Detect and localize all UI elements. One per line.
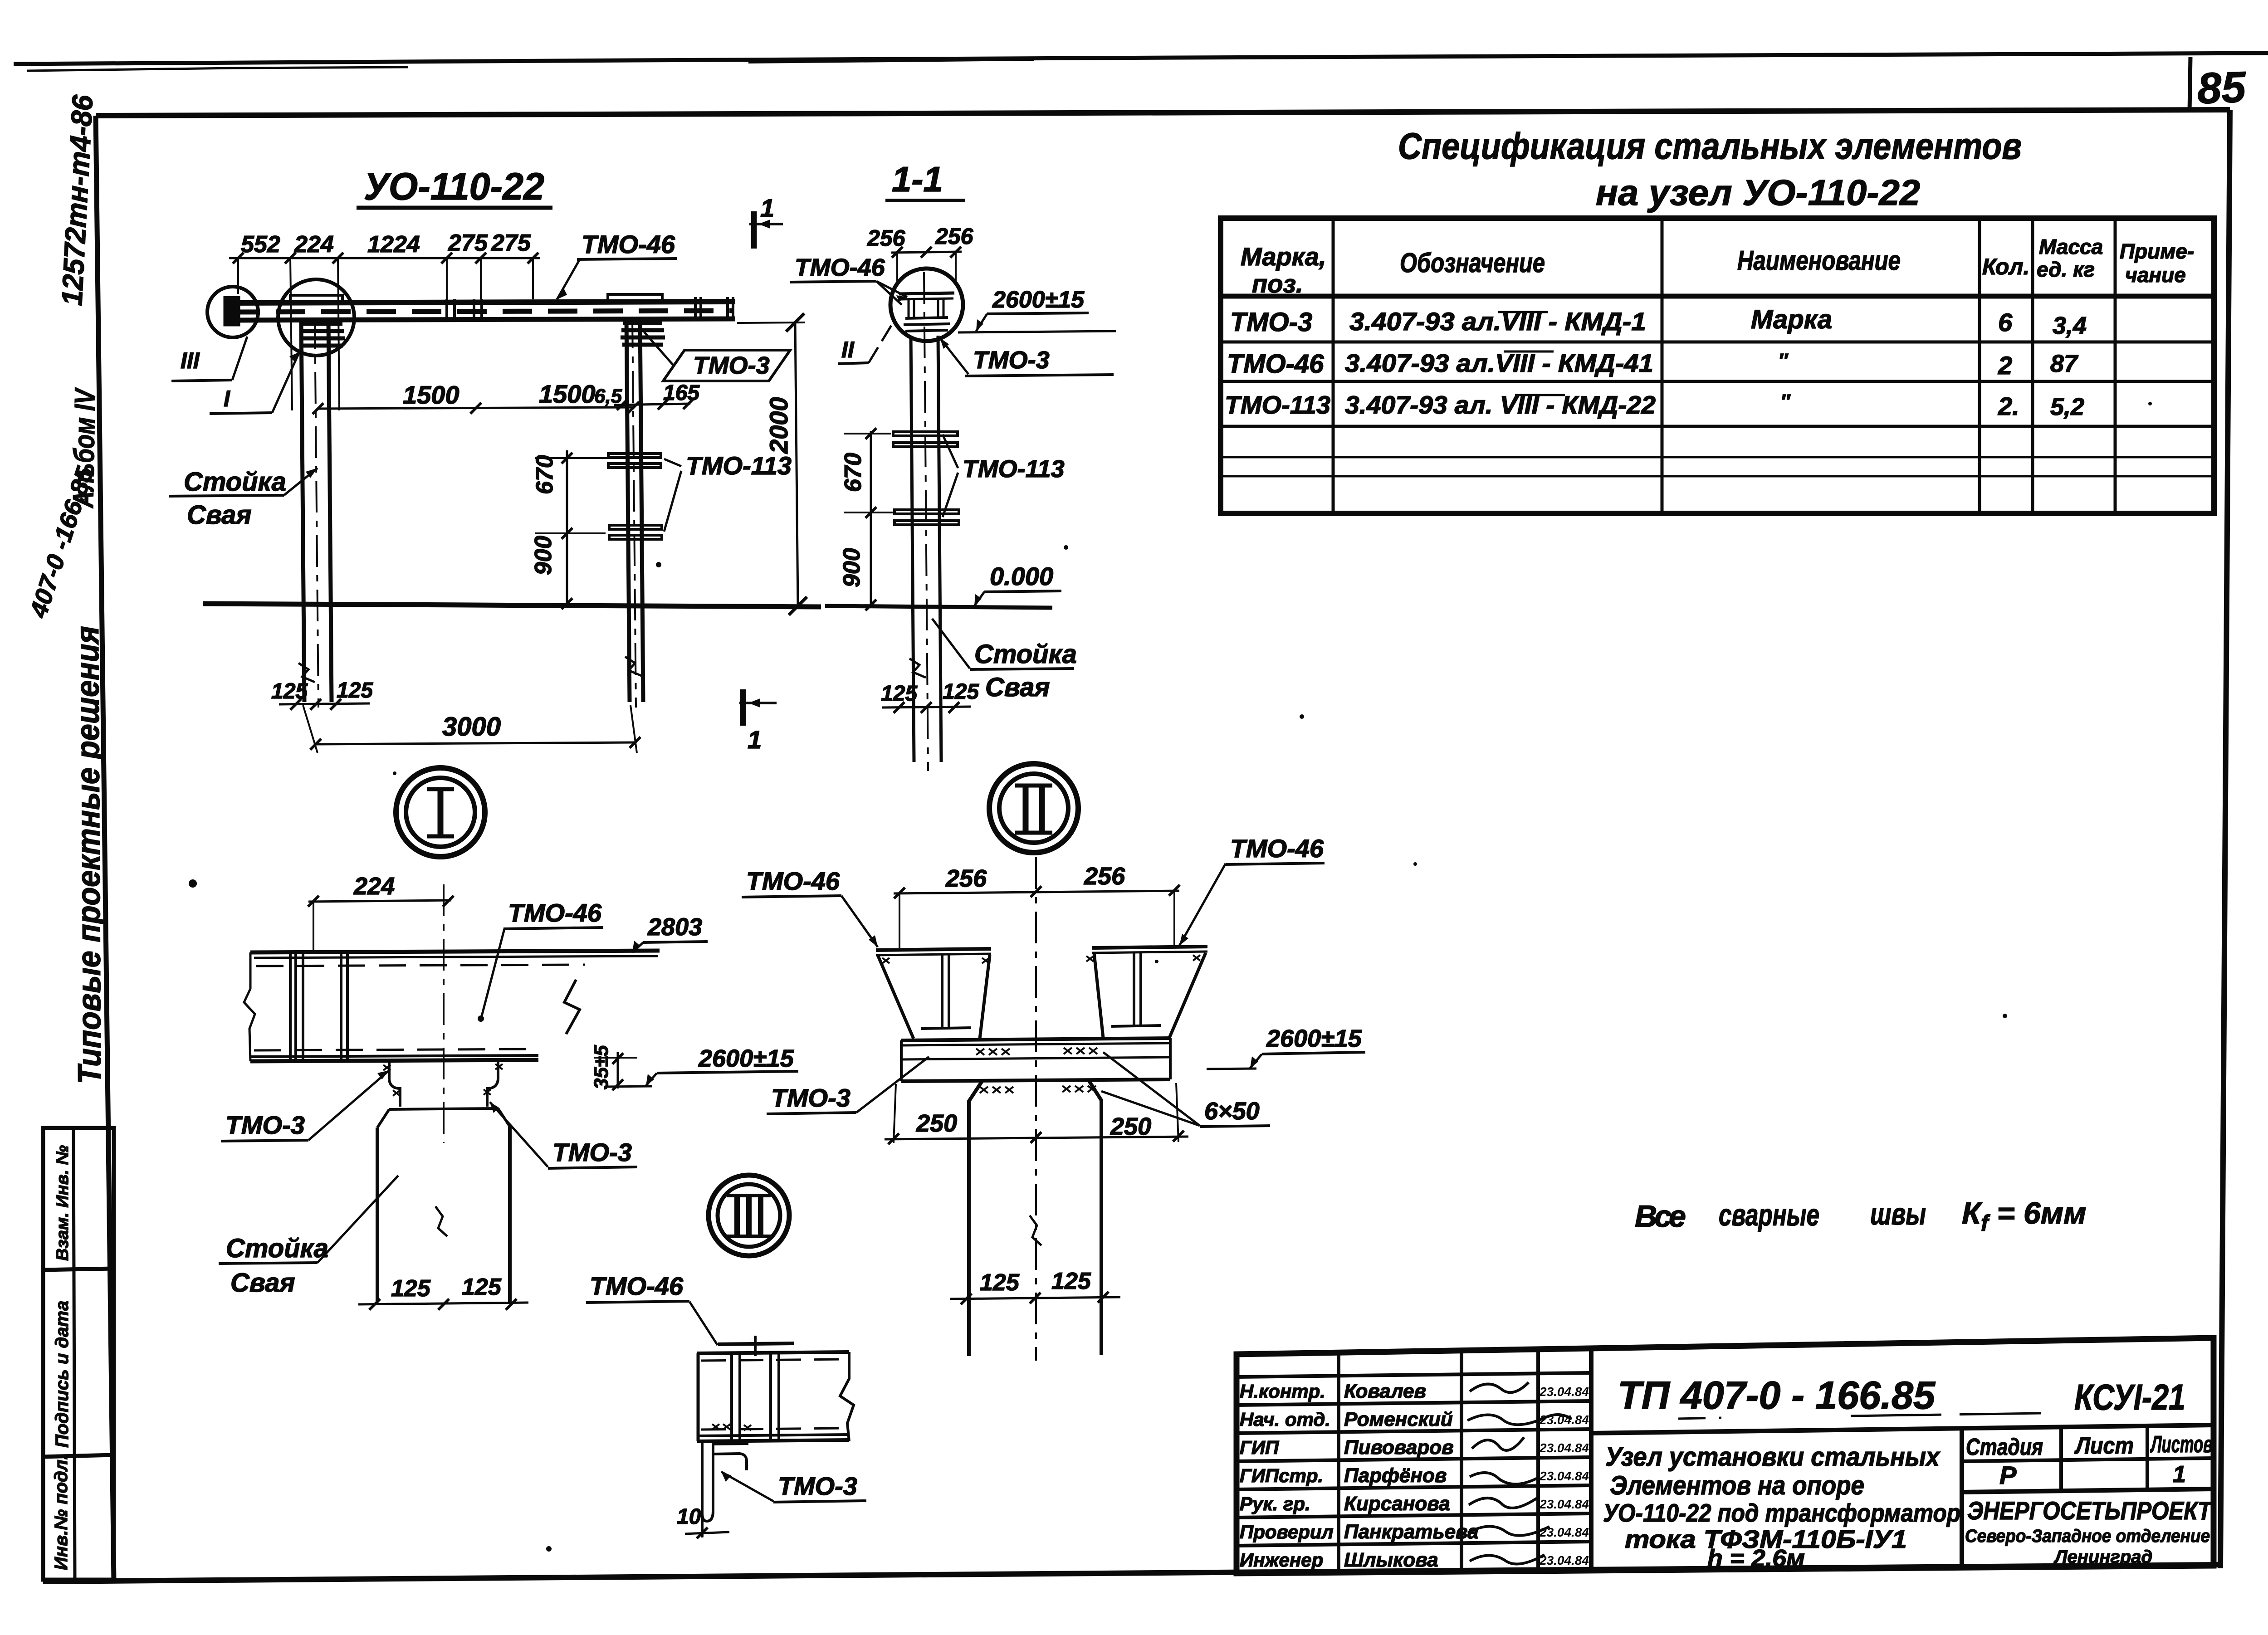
svg-text:670: 670 — [532, 455, 558, 494]
svg-text:125: 125 — [337, 678, 373, 703]
page top edge second scratch line — [27, 67, 408, 71]
weld marks upper row — [976, 1049, 1010, 1055]
frame bottom line — [43, 1565, 2220, 1581]
svg-text:ТМО-3: ТМО-3 — [552, 1138, 632, 1166]
frame left line — [96, 116, 114, 1581]
ТМО-3 band — [900, 1040, 903, 1081]
svg-text:Стойка: Стойка — [974, 639, 1077, 669]
signature rows roles — [1240, 1381, 1334, 1571]
signature dates 23.04.84 — [1539, 1385, 1589, 1567]
dim 65/165 near right column top — [614, 404, 690, 405]
svg-text:″: ″ — [1778, 350, 1789, 372]
svg-text:1: 1 — [760, 194, 774, 222]
svg-text:Стойка: Стойка — [184, 467, 286, 497]
svg-text:275: 275 — [491, 230, 531, 256]
section 1-1 view — [790, 159, 1116, 771]
weld x marks — [712, 1424, 730, 1430]
gusset slant sides — [878, 955, 914, 1039]
svg-text:УО-110-22 под трансформатор: УО-110-22 под трансформатор — [1603, 1498, 1960, 1527]
scan speckles — [189, 402, 2152, 1552]
right break — [840, 1352, 854, 1441]
beam band bottom lines — [254, 1049, 540, 1050]
svg-text:Наименование: Наименование — [1737, 245, 1901, 276]
svg-text:10: 10 — [677, 1505, 701, 1529]
dim 670/900 vertical — [870, 431, 872, 607]
svg-text:КСУI-21: КСУI-21 — [2074, 1377, 2185, 1417]
svg-text:2.: 2. — [1998, 392, 2019, 420]
centerline — [443, 884, 445, 1143]
top dim extension lines — [237, 258, 239, 294]
svg-text:Альбом IV: Альбом IV — [67, 387, 102, 509]
svg-text:Кирсанова: Кирсанова — [1344, 1493, 1450, 1515]
svg-text:1: 1 — [748, 725, 762, 754]
svg-text:3.407-93 ал. VIII - КМД-22: 3.407-93 ал. VIII - КМД-22 — [1345, 390, 1656, 419]
overline VIII row1 — [1498, 312, 1565, 395]
svg-text:Проверил: Проверил — [1240, 1521, 1334, 1542]
svg-text:Типовые проектные решения: Типовые проектные решения — [69, 626, 108, 1084]
svg-text:224: 224 — [294, 231, 334, 258]
ground line — [825, 606, 1052, 608]
svg-text:Масса: Масса — [2039, 235, 2103, 259]
weld marks at flange tips — [882, 955, 1200, 963]
svg-text:ед. кг: ед. кг — [2037, 258, 2095, 281]
svg-text:23.04.84: 23.04.84 — [1539, 1413, 1589, 1427]
frame right line — [2220, 110, 2230, 1568]
dim 35±5 — [594, 1052, 637, 1090]
svg-text:670: 670 — [840, 453, 866, 492]
svg-text:сварные: сварные — [1719, 1198, 1819, 1232]
svg-text:ТМО-46: ТМО-46 — [508, 898, 602, 927]
dim 1500 1500 line — [318, 407, 634, 409]
svg-text:Приме-: Приме- — [2120, 239, 2194, 263]
svg-text:256: 256 — [1084, 863, 1125, 890]
svg-text:ТМО-46: ТМО-46 — [1227, 349, 1324, 379]
svg-text:552: 552 — [241, 231, 280, 258]
svg-text:Нач. отд.: Нач. отд. — [1240, 1409, 1330, 1430]
section mark 1 bottom — [739, 689, 777, 726]
svg-text:Все: Все — [1635, 1199, 1686, 1234]
svg-text:125: 125 — [462, 1274, 502, 1300]
svg-text:275: 275 — [448, 230, 488, 256]
bracket flanges and webs — [876, 857, 1207, 1361]
svg-text:ТМО-3: ТМО-3 — [1230, 307, 1312, 337]
svg-text:23.04.84: 23.04.84 — [1539, 1441, 1589, 1455]
traverse beam ТМО-46 top chord — [229, 302, 735, 303]
column walls — [911, 336, 914, 762]
band bottom — [701, 1428, 844, 1430]
top dimension line — [229, 257, 540, 259]
elevation view УО-110-22 — [169, 165, 821, 754]
dim 256 256 line — [891, 252, 962, 253]
svg-text:256: 256 — [935, 224, 974, 249]
socket bell below band — [388, 1062, 391, 1079]
svg-text:250: 250 — [916, 1110, 957, 1137]
dim 2000 vertical — [795, 322, 798, 606]
svg-text:Инженер: Инженер — [1240, 1549, 1323, 1571]
column centerline — [924, 272, 928, 771]
bottom dim 125 125 — [882, 707, 971, 708]
svg-text:на узел УО-110-22: на узел УО-110-22 — [1596, 172, 1920, 213]
svg-text:224: 224 — [353, 873, 395, 900]
svg-text:ТМО-46: ТМО-46 — [1230, 834, 1324, 863]
svg-text:ТМО-113: ТМО-113 — [963, 455, 1065, 483]
svg-text:12572тн-т4-86: 12572тн-т4-86 — [55, 94, 99, 307]
beam mid stiffeners — [445, 299, 448, 321]
svg-text:Ковалев: Ковалев — [1344, 1380, 1426, 1402]
beam right end plates — [694, 297, 697, 320]
svg-text:Инв.№ подл.: Инв.№ подл. — [51, 1454, 71, 1570]
svg-text:1: 1 — [2173, 1461, 2186, 1488]
stiffener pair — [340, 952, 342, 1060]
svg-text:85: 85 — [2196, 63, 2247, 113]
svg-text:Элементов на опоре: Элементов на опоре — [1610, 1471, 1864, 1500]
svg-text:Спецификация стальных элементо: Спецификация стальных элементов — [1398, 126, 2022, 167]
svg-text:Взам. Инв. №: Взам. Инв. № — [53, 1145, 72, 1261]
dim 3000 line — [316, 742, 635, 744]
svg-text:Ленинград: Ленинград — [2053, 1547, 2152, 1567]
pile break — [1030, 1215, 1041, 1245]
svg-text:ТМО-46: ТМО-46 — [795, 254, 885, 281]
left web — [941, 955, 943, 1029]
svg-text:Пивоваров: Пивоваров — [1344, 1436, 1454, 1459]
top dim ticks — [233, 253, 244, 264]
dim 224 — [308, 896, 454, 950]
detail I — [219, 768, 798, 1310]
beam flange cross lines in circle — [899, 293, 954, 294]
svg-text:ТМО-113: ТМО-113 — [686, 451, 792, 480]
svg-text:чание: чание — [2125, 263, 2186, 287]
svg-text:ЭНЕРГОСЕТЬПРОЕКТ: ЭНЕРГОСЕТЬПРОЕКТ — [1967, 1496, 2213, 1525]
sheet number box divider — [2190, 57, 2190, 112]
right column break mark — [625, 657, 641, 676]
column flange joint upper — [893, 432, 958, 436]
detail II circle — [989, 764, 1078, 853]
svg-text:Панкратьева: Панкратьева — [1344, 1521, 1479, 1543]
dim 670/900 vertical line right column — [566, 450, 568, 605]
end plate verticals — [289, 952, 292, 1060]
svg-text:2600±15: 2600±15 — [698, 1045, 794, 1072]
svg-text:23.04.84: 23.04.84 — [1539, 1553, 1589, 1567]
svg-text:Узел установки стальных: Узел установки стальных — [1605, 1442, 1941, 1472]
title block outer box — [1237, 1338, 2214, 1573]
svg-text:Лист: Лист — [2074, 1433, 2134, 1459]
pile with chamfer — [969, 1081, 982, 1356]
svg-text:125: 125 — [391, 1275, 431, 1302]
beam left end plate — [225, 298, 239, 325]
svg-text:h = 2,6м: h = 2,6м — [1707, 1545, 1805, 1572]
svg-text:III: III — [181, 348, 200, 373]
svg-text:Листов: Листов — [2150, 1431, 2213, 1458]
small webs — [908, 299, 910, 317]
svg-text:I: I — [224, 386, 230, 411]
svg-text:23.04.84: 23.04.84 — [1539, 1525, 1589, 1539]
svg-text:Марка,: Марка, — [1241, 242, 1326, 271]
svg-text:Н.контр.: Н.контр. — [1240, 1381, 1325, 1402]
section circle around column top — [825, 268, 1052, 771]
top plate — [718, 1343, 794, 1344]
svg-text:1224: 1224 — [367, 231, 420, 258]
beam band top lines — [244, 884, 660, 1310]
svg-text:3000: 3000 — [442, 712, 501, 742]
right web — [1133, 953, 1135, 1026]
svg-text:6: 6 — [1998, 308, 2013, 337]
svg-text:1-1: 1-1 — [892, 159, 943, 199]
svg-text:Кол.: Кол. — [1982, 254, 2029, 279]
right break squiggle — [564, 980, 580, 1034]
svg-text:256: 256 — [867, 225, 906, 251]
beam dashed centerline — [230, 311, 734, 312]
svg-text:125: 125 — [943, 680, 979, 704]
svg-text:Стадия: Стадия — [1966, 1434, 2043, 1460]
svg-text:Стойка: Стойка — [226, 1234, 328, 1263]
svg-text:ТП 407-0 - 166.85: ТП 407-0 - 166.85 — [1618, 1374, 1936, 1417]
svg-text:ТМО-46: ТМО-46 — [582, 230, 675, 259]
signature scribbles — [1467, 1382, 1572, 1564]
svg-text:3.407-93 ал.VIII - КМД-41: 3.407-93 ал.VIII - КМД-41 — [1345, 349, 1653, 377]
detail circle I at left support — [278, 279, 354, 356]
socket plates — [905, 317, 948, 318]
svg-text:Р: Р — [1999, 1461, 2017, 1489]
detail III drawing — [586, 1272, 866, 1538]
title block middle divider under doc number — [1591, 1425, 2214, 1433]
detail II — [709, 764, 1365, 1361]
svg-text:ТМО-3: ТМО-3 — [693, 352, 770, 379]
svg-text:1500: 1500 — [403, 381, 459, 409]
svg-text:ТМО-113: ТМО-113 — [1225, 390, 1330, 419]
svg-text:23.04.84: 23.04.84 — [1539, 1469, 1589, 1483]
svg-text:ГИПстр.: ГИПстр. — [1240, 1465, 1323, 1486]
section mark 1 top — [749, 211, 783, 249]
detail circle III at beam end — [207, 287, 258, 337]
svg-text:256: 256 — [945, 865, 987, 892]
svg-text:35±5: 35±5 — [590, 1045, 612, 1089]
svg-text:125: 125 — [271, 679, 308, 703]
column flange joint lower — [894, 510, 959, 514]
svg-text:900: 900 — [839, 548, 865, 587]
beam pad over left support — [290, 295, 342, 303]
svg-text:Шлыкова: Шлыкова — [1344, 1549, 1438, 1571]
title block signature row lines — [1237, 1373, 1591, 1377]
svg-text:2600±15: 2600±15 — [1266, 1025, 1362, 1052]
svg-text:5,2: 5,2 — [2050, 393, 2084, 420]
right column walls — [626, 319, 630, 702]
svg-text:ТМО-46: ТМО-46 — [590, 1272, 684, 1300]
svg-text:поз.: поз. — [1252, 269, 1303, 298]
svg-text:1500: 1500 — [539, 380, 596, 408]
svg-text:Свая: Свая — [230, 1268, 295, 1298]
dim 125 125 — [950, 1297, 1120, 1299]
svg-text:125: 125 — [980, 1269, 1020, 1296]
svg-text:23.04.84: 23.04.84 — [1539, 1497, 1589, 1511]
svg-text:2803: 2803 — [647, 913, 702, 941]
svg-text:250: 250 — [1110, 1113, 1151, 1140]
right column flange joint lower ТМО-113 — [609, 525, 662, 529]
svg-text:87: 87 — [2050, 350, 2079, 377]
svg-text:3,4: 3,4 — [2053, 312, 2087, 339]
signature rows names — [1344, 1380, 1479, 1571]
beam pad over right support — [608, 294, 662, 302]
svg-text:165: 165 — [663, 381, 700, 405]
dim 256 256 detail II — [894, 885, 1180, 948]
svg-text:Роменский: Роменский — [1344, 1408, 1453, 1430]
left column break mark — [298, 663, 315, 682]
specification table grid — [1221, 218, 2214, 513]
svg-text:900: 900 — [530, 536, 557, 575]
svg-text:ТМО-3: ТМО-3 — [225, 1111, 305, 1139]
svg-text:Свая: Свая — [187, 500, 252, 530]
svg-text:125: 125 — [1051, 1268, 1091, 1294]
dim 250 250 — [885, 1137, 1188, 1139]
left edge — [697, 1353, 700, 1441]
base plate — [901, 1038, 1170, 1040]
angle bracket — [701, 1441, 704, 1537]
left column bottom dim 125 125 — [279, 703, 370, 704]
svg-text:0.000: 0.000 — [990, 562, 1053, 591]
svg-text:ТМО-3: ТМО-3 — [973, 347, 1050, 374]
svg-text:125: 125 — [881, 682, 918, 706]
svg-text:Кf = 6мм: Кf = 6мм — [1962, 1196, 2086, 1236]
svg-text:6×50: 6×50 — [1204, 1098, 1260, 1125]
column break mark — [909, 659, 926, 678]
svg-text:II: II — [841, 337, 855, 362]
svg-text:Подпись и дата: Подпись и дата — [52, 1301, 72, 1448]
weld marks at socket — [383, 1064, 503, 1096]
svg-text:УО-110-22: УО-110-22 — [364, 165, 544, 208]
band top — [697, 1352, 849, 1353]
svg-text:ТМО-3: ТМО-3 — [778, 1472, 857, 1500]
traverse beam bottom chord — [229, 319, 735, 320]
right column centerline — [632, 317, 636, 708]
svg-text:23.04.84: 23.04.84 — [1539, 1385, 1589, 1399]
svg-text:швы: швы — [1870, 1197, 1926, 1231]
svg-text:Северо-Западное отделение: Северо-Западное отделение — [1965, 1526, 2210, 1546]
frame top line — [96, 110, 2230, 116]
top dim labels — [241, 230, 531, 258]
right column flange joint upper ТМО-113 — [608, 454, 661, 458]
pile walls — [376, 1127, 379, 1303]
svg-text:″: ″ — [1780, 390, 1791, 413]
pile break — [435, 1206, 447, 1236]
svg-text:Марка: Марка — [1751, 305, 1832, 334]
svg-text:2600±15: 2600±15 — [992, 287, 1085, 313]
detail I circle — [396, 768, 485, 857]
svg-text:ГИП: ГИП — [1240, 1437, 1279, 1458]
elevation title underline — [357, 206, 552, 210]
right column socket striations — [623, 321, 662, 325]
ground line — [203, 604, 821, 607]
svg-text:Парфёнов: Парфёнов — [1344, 1464, 1447, 1487]
svg-text:ТМО-3: ТМО-3 — [771, 1083, 850, 1112]
underline dashes under doc number — [1678, 1413, 2041, 1419]
title block right section lines — [1960, 1430, 1964, 1567]
svg-text:ТМО-46: ТМО-46 — [746, 867, 840, 895]
weld marks lower row — [980, 1087, 1013, 1093]
svg-text:Рук. гр.: Рук. гр. — [1240, 1493, 1310, 1514]
inner verticals — [730, 1353, 733, 1441]
title block signature column lines — [1337, 1352, 1340, 1573]
svg-text:Свая: Свая — [985, 673, 1050, 702]
left column centerline — [315, 317, 318, 708]
band left edge break — [244, 952, 255, 1061]
bottom dim 125 125 — [358, 1303, 528, 1304]
svg-text:Обозначение: Обозначение — [1400, 248, 1545, 278]
left column (стойка) walls — [301, 320, 304, 702]
svg-text:2: 2 — [1998, 351, 2012, 380]
centerline — [1035, 857, 1037, 1361]
svg-text:2000: 2000 — [764, 397, 793, 454]
detail III circle — [709, 1175, 789, 1256]
svg-text:6,5: 6,5 — [594, 385, 622, 407]
page top edge line — [14, 53, 2268, 64]
left column socket striations — [303, 322, 342, 326]
bottom ticks dim 10 — [701, 1517, 704, 1537]
left margin stamp column boxes — [43, 1128, 114, 1580]
